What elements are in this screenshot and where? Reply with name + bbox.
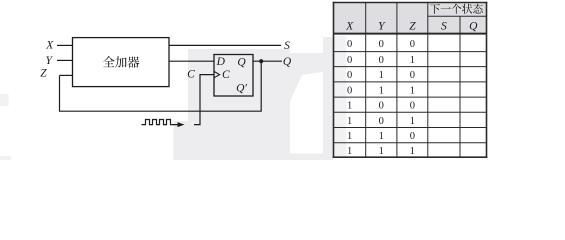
svg-text:0: 0 <box>410 70 415 81</box>
svg-text:Z: Z <box>40 67 47 79</box>
svg-text:Q: Q <box>283 56 292 68</box>
left margin highlight patch <box>0 94 9 106</box>
svg-text:0: 0 <box>379 116 384 127</box>
highlight strip left of table <box>323 37 334 160</box>
D flip-flop U2 box <box>214 55 253 97</box>
svg-text:0: 0 <box>410 39 415 50</box>
full adder U1 box <box>73 38 170 87</box>
table header fill <box>334 3 487 33</box>
table row lines <box>334 51 487 53</box>
svg-text:0: 0 <box>410 131 415 142</box>
svg-text:Z: Z <box>409 21 416 33</box>
table header 下一个状态 <box>430 4 483 14</box>
svg-text:1: 1 <box>410 116 415 127</box>
svg-text:0: 0 <box>410 101 415 112</box>
svg-text:Q: Q <box>237 57 246 69</box>
svg-text:1: 1 <box>410 55 415 66</box>
svg-text:1: 1 <box>347 116 352 127</box>
svg-text:S: S <box>284 40 290 52</box>
svg-text:1: 1 <box>347 131 352 142</box>
clock arrowhead <box>178 122 185 127</box>
svg-text:Y: Y <box>45 55 53 67</box>
full adder U1 label 全加器 <box>103 56 139 68</box>
svg-text:1: 1 <box>410 146 415 157</box>
flip-flop clock triangle <box>214 71 220 77</box>
svg-text:1: 1 <box>347 101 352 112</box>
wire X input <box>57 44 73 46</box>
svg-text:C: C <box>222 69 230 81</box>
svg-text:1: 1 <box>379 70 384 81</box>
svg-text:1: 1 <box>379 146 384 157</box>
wire feedback Q to Z <box>60 61 262 111</box>
svg-text:0: 0 <box>379 39 384 50</box>
highlight wash background right of circuit <box>188 49 290 160</box>
svg-text:Q′: Q′ <box>236 82 247 94</box>
junction dot on Q output <box>259 59 263 63</box>
wire clock to C pin <box>194 75 214 125</box>
table outer border right <box>486 2 488 158</box>
svg-text:S: S <box>441 21 447 33</box>
svg-text:0: 0 <box>347 39 352 50</box>
wire adder carry to D input <box>169 60 214 62</box>
faint highlight inside first table column <box>334 36 346 157</box>
clock waveform symbol <box>142 120 179 125</box>
wire Q output <box>253 60 282 62</box>
wire Y input <box>57 59 73 61</box>
svg-text:C: C <box>187 69 195 81</box>
svg-text:1: 1 <box>410 85 415 96</box>
svg-text:X: X <box>45 39 54 51</box>
svg-text:1: 1 <box>379 131 384 142</box>
svg-text:0: 0 <box>347 85 352 96</box>
table thick line under header <box>334 33 487 35</box>
bottom-left faint highlight patch <box>0 156 11 160</box>
svg-text:D: D <box>216 56 226 68</box>
wire S output <box>169 44 281 46</box>
svg-text:0: 0 <box>379 101 384 112</box>
table outer border bottom <box>333 156 488 158</box>
svg-text:X: X <box>345 21 354 33</box>
svg-text:0: 0 <box>347 70 352 81</box>
table header 下一个状态 divider <box>428 15 487 17</box>
wire Z input stub <box>60 74 73 76</box>
svg-text:Q: Q <box>469 21 478 33</box>
table column lines <box>365 3 367 158</box>
table outer border top <box>333 2 488 4</box>
table outer border left <box>333 2 335 158</box>
svg-text:0: 0 <box>347 55 352 66</box>
svg-text:1: 1 <box>379 85 384 96</box>
svg-text:1: 1 <box>347 146 352 157</box>
svg-text:0: 0 <box>379 55 384 66</box>
